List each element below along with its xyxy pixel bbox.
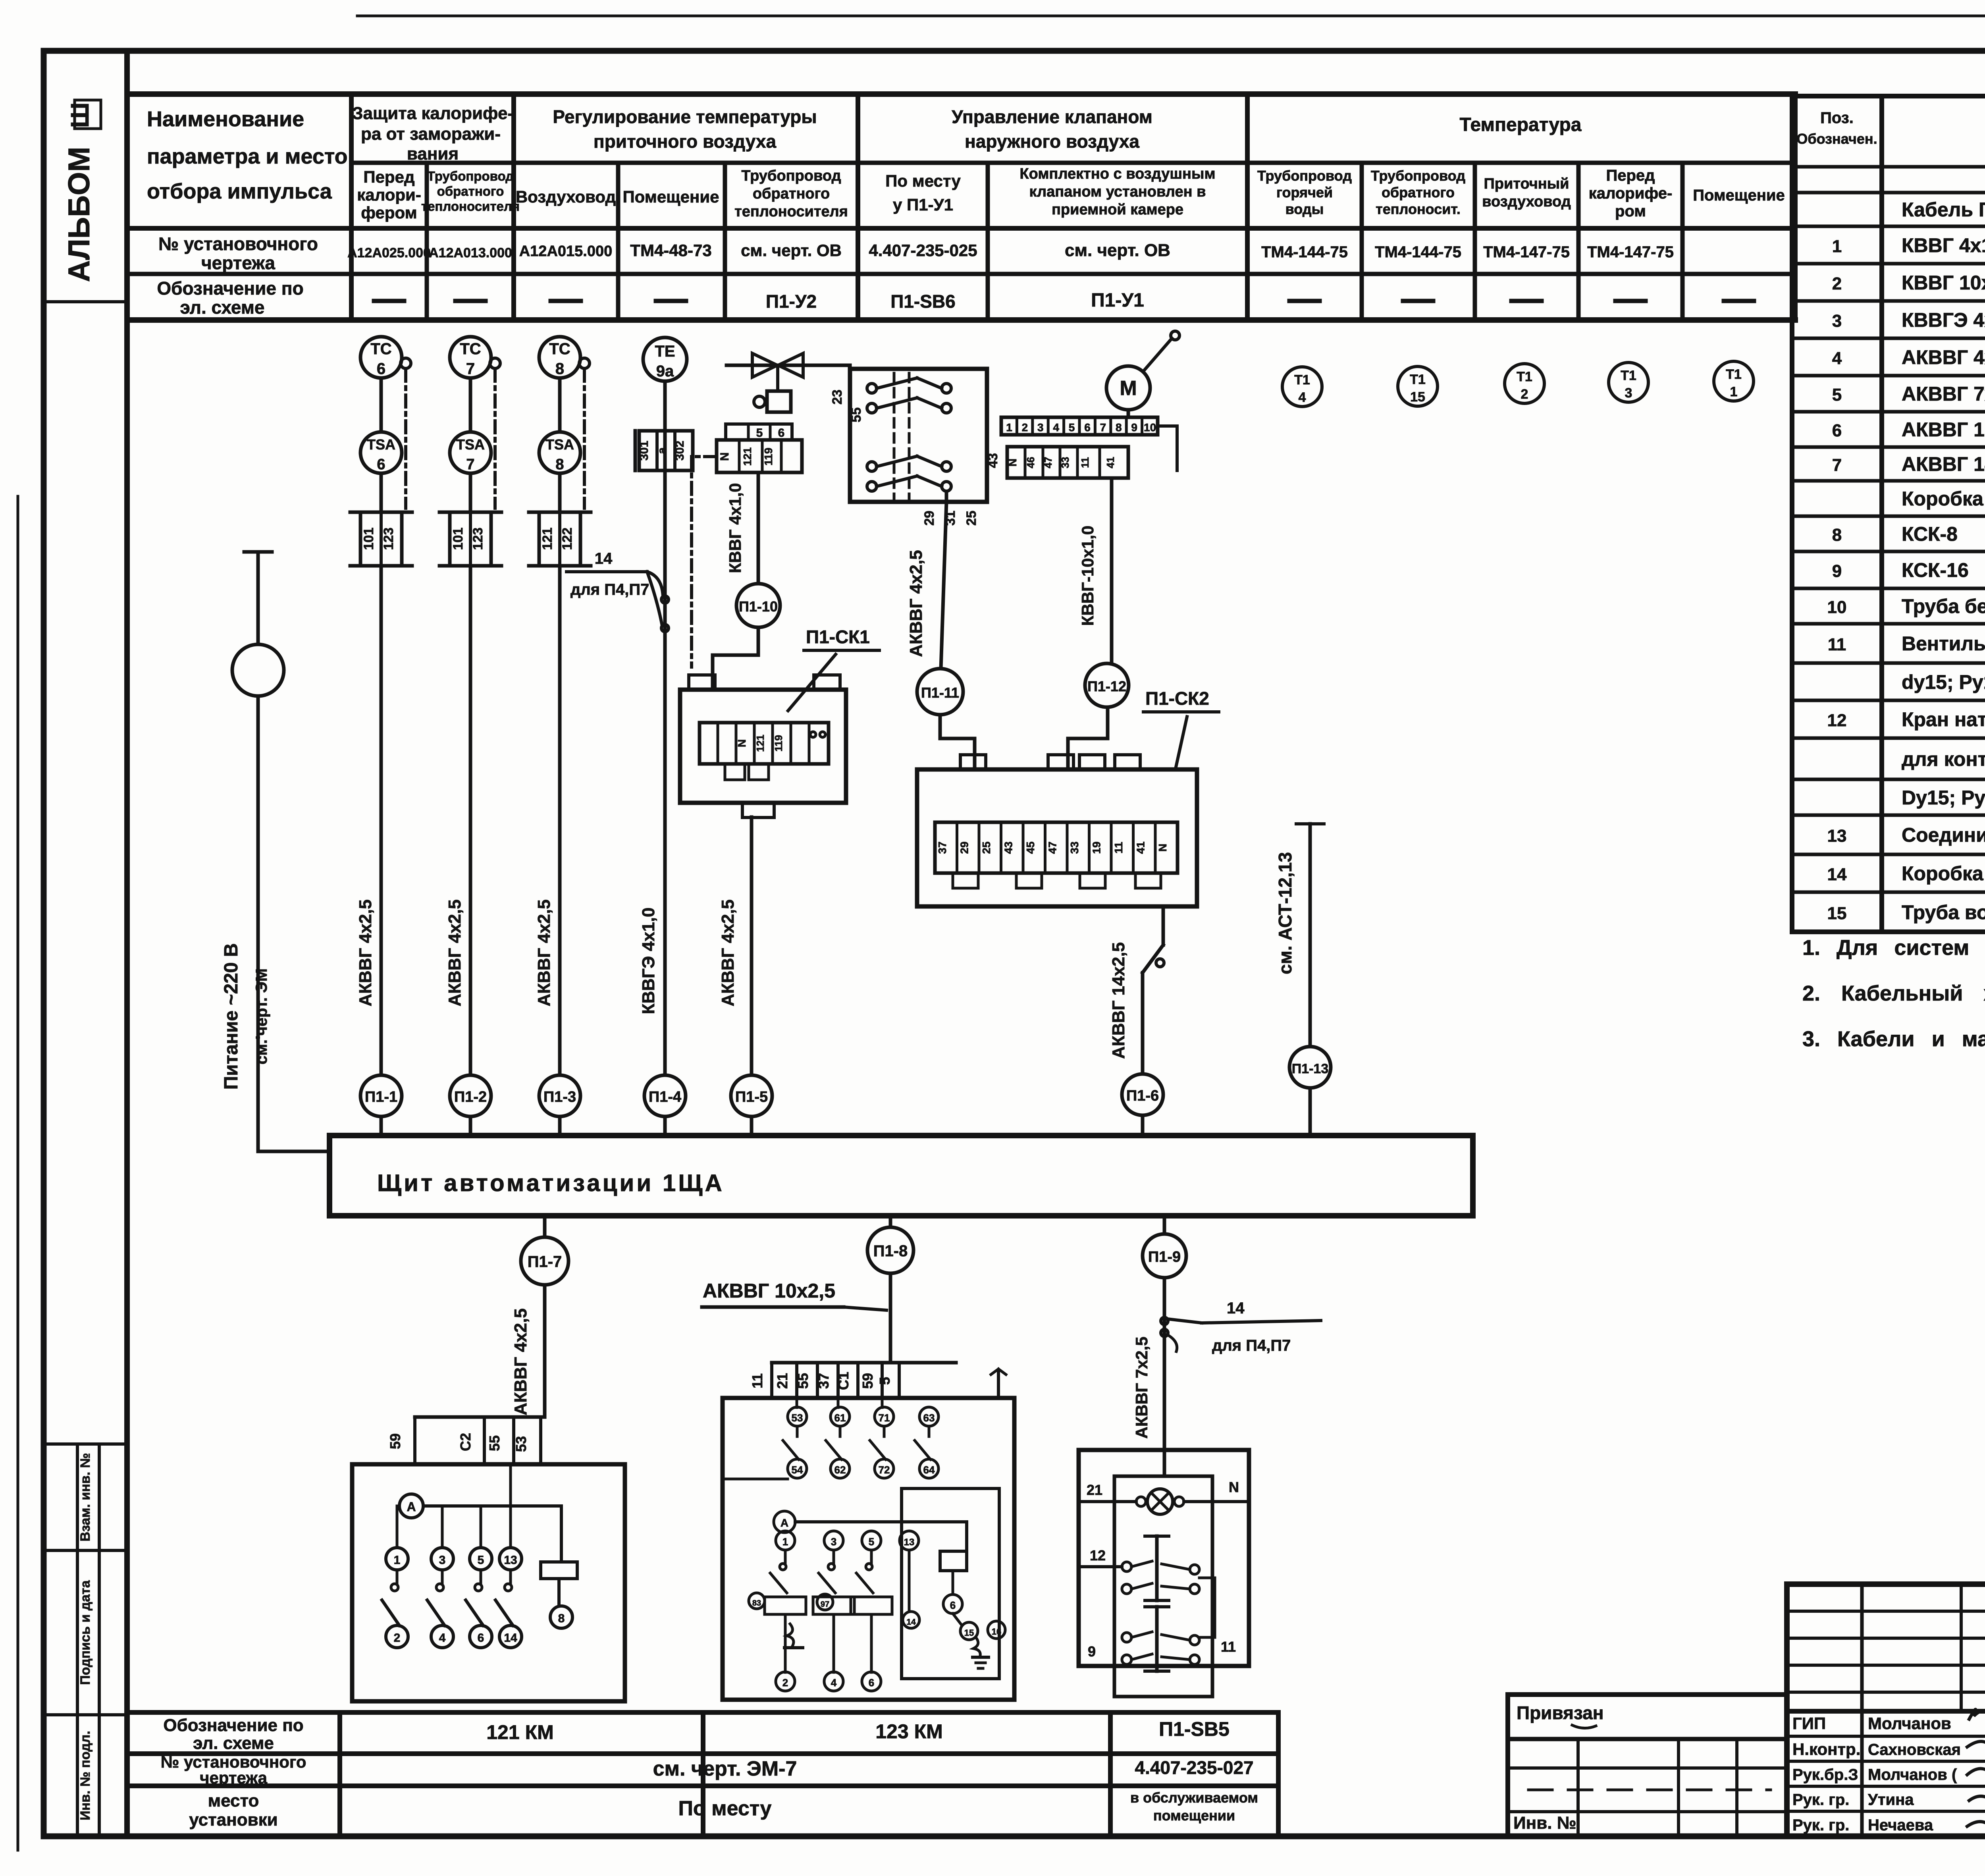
svg-text:С1: С1 [835, 1372, 852, 1390]
svg-text:теплоносит.: теплоносит. [1376, 201, 1461, 217]
svg-text:2: 2 [782, 1677, 788, 1689]
svg-text:П1-SВ5: П1-SВ5 [1159, 1718, 1230, 1740]
svg-text:10: 10 [1144, 421, 1156, 434]
svg-text:теплоносителя: теплоносителя [421, 199, 520, 214]
svg-text:8: 8 [555, 456, 564, 473]
svg-text:АКВВГ 4х2,5: АКВВГ 4х2,5 [511, 1308, 530, 1415]
svg-text:Трубопровод: Трубопровод [1371, 168, 1465, 184]
svg-text:теплоносителя: теплоносителя [734, 203, 848, 220]
svg-text:4: 4 [1053, 421, 1059, 434]
svg-text:ТSА: ТSА [545, 436, 574, 453]
svg-text:55: 55 [849, 407, 864, 422]
svg-text:ра от заморажи-: ра от заморажи- [361, 124, 501, 144]
svg-text:ТSА: ТSА [456, 436, 485, 453]
svg-text:П1-10: П1-10 [739, 598, 778, 615]
svg-text:Взам. инв. №: Взам. инв. № [78, 1453, 93, 1541]
svg-text:Рук. гр.: Рук. гр. [1792, 1816, 1849, 1834]
svg-text:КВВГ-10х1,0: КВВГ-10х1,0 [1078, 526, 1097, 626]
svg-text:11: 11 [1221, 1639, 1236, 1655]
svg-text:15: 15 [1827, 904, 1847, 923]
svg-text:обратного: обратного [437, 184, 504, 199]
svg-text:59: 59 [387, 1433, 403, 1449]
svg-text:П1-4: П1-4 [649, 1089, 681, 1105]
svg-text:83: 83 [752, 1599, 761, 1608]
svg-text:см. черт. ОВ: см. черт. ОВ [1065, 241, 1170, 260]
svg-text:11: 11 [1828, 635, 1846, 654]
svg-text:dу15; Ру16 ГОСТ 5761-74*: dу15; Ру16 ГОСТ 5761-74* [1902, 671, 1985, 693]
svg-text:Молчанов (: Молчанов ( [1868, 1766, 1957, 1783]
svg-text:64: 64 [923, 1464, 935, 1476]
svg-text:воздуховод: воздуховод [1482, 193, 1571, 210]
svg-text:приточного воздуха: приточного воздуха [594, 131, 777, 152]
svg-text:41: 41 [1135, 841, 1147, 854]
svg-text:33: 33 [1059, 457, 1071, 469]
svg-text:10: 10 [1827, 598, 1847, 617]
svg-text:АКВВГ 14х2,5: АКВВГ 14х2,5 [1109, 942, 1128, 1059]
svg-text:Нечаева: Нечаева [1868, 1816, 1933, 1834]
svg-text:ТМ4-48-73: ТМ4-48-73 [630, 241, 711, 260]
svg-text:13: 13 [904, 1537, 915, 1548]
svg-text:1. Для систем П3,П4,П7. Схемы: 1. Для систем П3,П4,П7. Схемы аналогичны… [1802, 936, 1985, 960]
svg-text:горячей: горячей [1276, 184, 1333, 201]
svg-text:N: N [1229, 1479, 1239, 1495]
svg-text:1: 1 [1730, 384, 1738, 399]
svg-text:7: 7 [466, 360, 475, 378]
svg-text:П1-9: П1-9 [1148, 1249, 1181, 1265]
svg-text:12: 12 [1090, 1547, 1106, 1564]
svg-text:П1-11: П1-11 [921, 684, 959, 701]
svg-text:25: 25 [964, 511, 979, 526]
svg-text:29: 29 [958, 841, 971, 854]
svg-text:АКВВГ 7х2,5: АКВВГ 7х2,5 [1132, 1336, 1151, 1438]
svg-text:2: 2 [1022, 421, 1028, 434]
svg-text:N: N [1156, 844, 1169, 852]
svg-text:4.407-235-025: 4.407-235-025 [869, 241, 977, 260]
svg-text:Н.контр.: Н.контр. [1792, 1740, 1860, 1758]
svg-text:Приточный: Приточный [1484, 175, 1569, 192]
svg-text:КСК-8: КСК-8 [1902, 523, 1958, 545]
svg-text:Перед: Перед [1606, 167, 1655, 184]
svg-text:Рук.бр.З: Рук.бр.З [1792, 1766, 1858, 1783]
svg-text:Труба бесшовная 14х2 ГОСТ 8: Труба бесшовная 14х2 ГОСТ 8734-75 [1902, 595, 1985, 617]
svg-text:11: 11 [749, 1373, 765, 1388]
svg-text:клапаном установлен в: клапаном установлен в [1029, 183, 1206, 200]
svg-text:45: 45 [1024, 841, 1037, 854]
svg-text:121: 121 [741, 447, 754, 466]
svg-text:ТSА: ТSА [367, 436, 395, 453]
svg-text:7: 7 [1832, 455, 1842, 475]
svg-text:Защита калорифе-: Защита калорифе- [352, 104, 513, 123]
svg-text:119: 119 [773, 735, 784, 752]
svg-text:П1-SВ6: П1-SВ6 [890, 291, 955, 312]
svg-text:П1-13: П1-13 [1292, 1061, 1329, 1076]
svg-text:Подпись и дата: Подпись и дата [78, 1580, 93, 1685]
svg-text:9: 9 [1088, 1643, 1096, 1660]
svg-text:5: 5 [877, 1377, 893, 1385]
svg-text:Сахновская: Сахновская [1868, 1741, 1961, 1758]
svg-text:43: 43 [985, 453, 1000, 468]
svg-text:см. черт. ОВ: см. черт. ОВ [741, 241, 842, 260]
svg-text:Вентиль запорный муфтовый 1: Вентиль запорный муфтовый 15кч18р [1902, 632, 1985, 655]
svg-text:Помещение: Помещение [1693, 187, 1785, 204]
svg-text:59: 59 [860, 1373, 876, 1389]
svg-text:21: 21 [774, 1373, 790, 1389]
svg-text:123: 123 [470, 528, 486, 550]
svg-text:ТМ4-144-75: ТМ4-144-75 [1375, 243, 1461, 261]
svg-text:для контрольного манометра: для контрольного манометра 14М1-00-00 [1902, 748, 1985, 770]
svg-text:КВВГ 10х1,0: КВВГ 10х1,0 [1902, 272, 1985, 294]
svg-text:А12А015.000: А12А015.000 [519, 243, 613, 260]
svg-text:43: 43 [1002, 841, 1015, 854]
svg-text:119: 119 [762, 447, 775, 465]
svg-text:101: 101 [451, 528, 466, 550]
svg-text:55: 55 [486, 1435, 503, 1451]
svg-text:13: 13 [1827, 826, 1847, 846]
svg-text:3: 3 [831, 1536, 836, 1548]
svg-text:5: 5 [1069, 421, 1075, 434]
svg-text:в обслуживаемом: в обслуживаемом [1130, 1789, 1258, 1806]
svg-text:3. Кабели и материалы учтены д: 3. Кабели и материалы учтены для систем … [1802, 1027, 1985, 1051]
svg-text:3: 3 [439, 1554, 446, 1567]
svg-text:14: 14 [1227, 1300, 1245, 1317]
svg-text:123 КМ: 123 КМ [875, 1720, 942, 1743]
svg-text:АКВВГ 10х2,5: АКВВГ 10х2,5 [703, 1280, 835, 1302]
svg-text:5: 5 [869, 1536, 874, 1548]
svg-text:П1-СК2: П1-СК2 [1145, 688, 1209, 709]
svg-text:ром: ром [1615, 202, 1646, 220]
svg-text:АКВВГ 4х2,5: АКВВГ 4х2,5 [534, 899, 554, 1006]
svg-text:8: 8 [558, 1612, 565, 1625]
svg-text:вания: вания [407, 144, 459, 164]
svg-text:71: 71 [879, 1412, 890, 1424]
svg-text:9: 9 [1832, 561, 1842, 581]
svg-text:14: 14 [906, 1618, 916, 1627]
svg-text:Коробка соединительная ТУ36: Коробка соединительная ТУ36.1753-75 [1902, 488, 1985, 510]
svg-text:Щит автоматизации 1ЩА: Щит автоматизации 1ЩА [377, 1170, 725, 1196]
svg-text:72: 72 [879, 1464, 890, 1476]
svg-text:Утина: Утина [1868, 1791, 1914, 1809]
svg-text:обратного: обратного [1382, 184, 1455, 201]
svg-text:6: 6 [778, 426, 785, 440]
svg-text:302: 302 [673, 441, 686, 461]
svg-text:П1-2: П1-2 [454, 1089, 487, 1105]
svg-text:Т1: Т1 [1621, 368, 1636, 383]
svg-text:ТС: ТС [549, 340, 570, 358]
svg-text:Т1: Т1 [1410, 372, 1426, 387]
svg-text:3: 3 [1625, 386, 1632, 401]
svg-text:4.407-235-027: 4.407-235-027 [1135, 1757, 1253, 1778]
svg-text:По месту: По месту [678, 1797, 772, 1820]
svg-text:6: 6 [377, 360, 385, 378]
svg-text:1: 1 [1832, 237, 1842, 256]
svg-text:122: 122 [560, 528, 575, 550]
svg-text:121 КМ: 121 КМ [486, 1721, 553, 1743]
svg-text:Регулирование температуры: Регулирование температуры [553, 106, 817, 127]
svg-text:Молчанов: Молчанов [1868, 1714, 1951, 1733]
svg-text:47: 47 [1042, 457, 1054, 469]
svg-text:П1-У1: П1-У1 [1091, 290, 1144, 311]
svg-text:4: 4 [439, 1631, 446, 1645]
svg-text:1: 1 [394, 1554, 401, 1567]
svg-text:N: N [736, 739, 748, 747]
svg-text:КВВГЭ 4х1,0: КВВГЭ 4х1,0 [639, 908, 658, 1014]
svg-text:А: А [781, 1517, 788, 1529]
svg-text:121: 121 [754, 735, 766, 752]
svg-text:Труба водогазопроводная 25: Труба водогазопроводная 25 ГОСТ 3262-75* [1902, 901, 1985, 924]
svg-text:чертежа: чертежа [201, 253, 275, 273]
svg-text:6: 6 [478, 1631, 484, 1645]
svg-text:А12А013.000: А12А013.000 [429, 245, 512, 260]
svg-text:ГИП: ГИП [1792, 1714, 1826, 1733]
svg-text:фером: фером [361, 203, 417, 222]
svg-text:у П1-У1: у П1-У1 [893, 195, 953, 214]
svg-text:14: 14 [1827, 865, 1847, 884]
svg-text:29: 29 [922, 511, 937, 526]
svg-text:46: 46 [1025, 457, 1037, 469]
svg-text:33: 33 [1068, 841, 1081, 854]
svg-text:5: 5 [756, 426, 763, 440]
svg-text:эл. схеме: эл. схеме [193, 1733, 274, 1753]
svg-text:А12А025.000: А12А025.000 [347, 245, 431, 260]
svg-text:54: 54 [792, 1464, 803, 1476]
svg-text:Т1: Т1 [1517, 369, 1532, 384]
svg-text:6: 6 [950, 1599, 956, 1611]
svg-text:АКВВГ 10х2,5: АКВВГ 10х2,5 [1902, 418, 1985, 441]
svg-text:калори-: калори- [357, 185, 421, 204]
svg-text:53: 53 [792, 1412, 803, 1424]
svg-text:Привязан: Привязан [1517, 1702, 1604, 1723]
svg-text:АКВВГ 4х2,5: АКВВГ 4х2,5 [718, 899, 738, 1006]
svg-text:6: 6 [869, 1677, 874, 1689]
svg-text:Соединитель НСВ 14х1/2" ТУ36: Соединитель НСВ 14х1/2" ТУ36.1104-75 [1902, 824, 1985, 846]
svg-text:8: 8 [1832, 525, 1842, 545]
svg-text:АКВВГ 4х2,5: АКВВГ 4х2,5 [356, 899, 375, 1006]
svg-text:14: 14 [595, 550, 613, 567]
svg-text:2: 2 [1521, 387, 1528, 402]
svg-text:ТЕ: ТЕ [655, 343, 675, 360]
svg-text:Управление клапаном: Управление клапаном [952, 106, 1152, 127]
svg-text:чертежа: чертежа [200, 1768, 268, 1787]
svg-text:калорифе-: калорифе- [1589, 185, 1673, 202]
svg-text:Воздуховод: Воздуховод [516, 187, 616, 206]
svg-text:воды: воды [1285, 201, 1324, 217]
svg-text:9: 9 [1131, 421, 1137, 434]
svg-text:наружного воздуха: наружного воздуха [965, 131, 1139, 152]
svg-text:N: N [718, 452, 731, 461]
svg-text:КСК-16: КСК-16 [1902, 559, 1969, 581]
svg-text:53: 53 [513, 1436, 529, 1452]
svg-text:Питание ~220 В: Питание ~220 В [221, 943, 242, 1090]
svg-text:ТС: ТС [370, 340, 391, 358]
svg-text:АКВВГ 4х2,5: АКВВГ 4х2,5 [445, 899, 464, 1006]
svg-text:Наименование: Наименование [147, 107, 304, 131]
svg-text:Трубопровод: Трубопровод [741, 168, 841, 184]
svg-text:эл. схеме: эл. схеме [180, 297, 264, 318]
svg-text:15: 15 [1410, 389, 1425, 405]
svg-text:3: 3 [1832, 311, 1842, 331]
svg-text:4: 4 [1299, 390, 1306, 405]
svg-text:установки: установки [189, 1810, 278, 1830]
svg-text:21: 21 [1087, 1482, 1102, 1498]
svg-text:для П4,П7: для П4,П7 [570, 581, 649, 598]
svg-text:19: 19 [1091, 841, 1103, 854]
svg-text:61: 61 [834, 1412, 846, 1424]
svg-text:9а: 9а [656, 362, 674, 380]
svg-text:место: место [208, 1791, 259, 1810]
svg-text:14: 14 [504, 1631, 517, 1645]
svg-text:М: М [1120, 377, 1137, 400]
svg-text:отбора импульса: отбора импульса [147, 179, 332, 203]
svg-text:Трубопровод: Трубопровод [1257, 168, 1352, 184]
svg-text:Кран натяжной муфтовый с ф: Кран натяжной муфтовый с фланцем [1902, 708, 1985, 731]
svg-text:Инв. №: Инв. № [1513, 1813, 1576, 1833]
svg-text:Помещение: Помещение [622, 187, 719, 206]
svg-text:Комплектно с воздушным: Комплектно с воздушным [1019, 166, 1215, 182]
svg-text:АКВВГ 14х2,5: АКВВГ 14х2,5 [1902, 453, 1985, 475]
svg-text:121: 121 [540, 528, 555, 550]
svg-text:101: 101 [361, 528, 376, 550]
svg-text:123: 123 [381, 528, 396, 550]
svg-text:Рук. гр.: Рук. гр. [1792, 1791, 1849, 1809]
svg-text:Поз.: Поз. [1820, 109, 1854, 127]
svg-text:Обозначение по: Обозначение по [163, 1716, 303, 1735]
svg-text:П1-6: П1-6 [1126, 1087, 1159, 1104]
svg-text:Т1: Т1 [1294, 372, 1310, 388]
svg-text:для П4,П7: для П4,П7 [1212, 1337, 1291, 1354]
svg-text:4: 4 [831, 1677, 837, 1689]
svg-text:41: 41 [1104, 457, 1116, 469]
svg-text:62: 62 [834, 1464, 846, 1476]
svg-text:см.'черт. ЭМ: см.'черт. ЭМ [253, 968, 270, 1064]
svg-text:2: 2 [1832, 274, 1842, 293]
svg-text:4: 4 [1832, 349, 1842, 368]
svg-text:63: 63 [923, 1412, 935, 1424]
svg-text:Перед: Перед [363, 168, 414, 186]
svg-text:23: 23 [830, 389, 845, 405]
svg-text:11: 11 [1079, 457, 1091, 468]
svg-text:37: 37 [936, 841, 948, 854]
svg-text:Обозначен.: Обозначен. [1796, 131, 1877, 147]
svg-text:ТМ4-147-75: ТМ4-147-75 [1483, 243, 1570, 261]
svg-text:97: 97 [821, 1600, 829, 1609]
svg-text:47: 47 [1046, 841, 1059, 854]
svg-text:3: 3 [1037, 421, 1044, 434]
svg-text:6: 6 [1084, 421, 1091, 434]
svg-text:ТМ4-147-75: ТМ4-147-75 [1587, 243, 1674, 261]
svg-text:№ установочного: № установочного [158, 233, 318, 254]
svg-text:1: 1 [782, 1536, 788, 1548]
svg-text:6: 6 [1832, 421, 1842, 440]
svg-text:П1-12: П1-12 [1087, 678, 1126, 694]
svg-text:13: 13 [504, 1554, 517, 1567]
svg-text:см. АСТ-12,13: см. АСТ-12,13 [1275, 852, 1295, 974]
svg-text:обратного: обратного [753, 185, 830, 202]
svg-text:25: 25 [980, 841, 992, 854]
svg-text:АКВВГ 4х2,5: АКВВГ 4х2,5 [1902, 346, 1985, 368]
svg-text:Ш: Ш [66, 102, 94, 128]
svg-text:По месту: По месту [885, 172, 961, 190]
svg-text:Кабель ГОСТ 1508-78*Е: Кабель ГОСТ 1508-78*Е [1902, 199, 1985, 221]
svg-text:7: 7 [466, 456, 474, 473]
svg-text:Трубопровод: Трубопровод [427, 169, 514, 183]
svg-text:37: 37 [815, 1373, 832, 1389]
svg-text:6: 6 [377, 456, 385, 473]
svg-text:АКВВГ 4х2,5: АКВВГ 4х2,5 [906, 550, 926, 657]
svg-text:А: А [407, 1500, 416, 1514]
svg-text:параметра и место: параметра и место [147, 145, 348, 168]
svg-text:Температура: Температура [1460, 114, 1582, 135]
svg-text:приемной камере: приемной камере [1052, 201, 1183, 218]
svg-text:5: 5 [1832, 385, 1842, 405]
svg-text:С2: С2 [457, 1433, 474, 1451]
svg-text:ТМ4-144-75: ТМ4-144-75 [1261, 243, 1348, 261]
svg-text:301: 301 [638, 441, 651, 461]
svg-text:12: 12 [1827, 711, 1847, 730]
svg-text:2. Кабельный журнал см. АСТ-14: 2. Кабельный журнал см. АСТ-14. [1802, 981, 1985, 1005]
svg-text:П1-7: П1-7 [528, 1253, 562, 1271]
svg-text:помещении: помещении [1153, 1807, 1235, 1824]
svg-text:КВВГ 4х1,0: КВВГ 4х1,0 [726, 483, 744, 573]
svg-text:1: 1 [1006, 421, 1012, 434]
svg-text:АЛЬБОМ: АЛЬБОМ [62, 147, 96, 282]
svg-text:П1-1: П1-1 [365, 1089, 397, 1105]
svg-text:Обозначение по: Обозначение по [157, 278, 303, 299]
svg-text:П1-5: П1-5 [735, 1089, 768, 1105]
svg-text:55: 55 [795, 1373, 811, 1389]
svg-text:П1-3: П1-3 [543, 1089, 576, 1105]
svg-text:КВВГ 4х1,0: КВВГ 4х1,0 [1902, 234, 1985, 256]
svg-text:Коробка проходная КПЛ-20: Коробка проходная КПЛ-20 ТУ36.1739-82 [1902, 862, 1985, 885]
svg-text:8: 8 [1116, 421, 1122, 434]
svg-text:П1-У2: П1-У2 [766, 291, 817, 312]
svg-text:16: 16 [992, 1627, 1001, 1637]
svg-text:15: 15 [964, 1628, 974, 1638]
svg-text:5: 5 [478, 1554, 484, 1567]
svg-text:АКВВГ 7х2,5: АКВВГ 7х2,5 [1902, 383, 1985, 405]
svg-text:ТС: ТС [460, 340, 481, 358]
svg-text:Т1: Т1 [1726, 367, 1742, 382]
svg-text:КВВГЭ 4х1,0: КВВГЭ 4х1,0 [1902, 309, 1985, 331]
svg-text:8: 8 [555, 360, 564, 378]
svg-text:11: 11 [1112, 842, 1125, 854]
svg-text:N: N [1006, 459, 1019, 467]
svg-text:2: 2 [394, 1631, 401, 1645]
svg-text:П1-СК1: П1-СК1 [806, 627, 870, 647]
svg-text:Dу15; Ру16 ТУ26-07-1061-7: Dу15; Ру16 ТУ26-07-1061-73 [1902, 787, 1985, 809]
svg-text:а: а [655, 447, 669, 454]
svg-text:см. черт. ЭМ-7: см. черт. ЭМ-7 [653, 1757, 797, 1780]
svg-text:Инв. № подл.: Инв. № подл. [78, 1731, 93, 1820]
svg-text:7: 7 [1100, 421, 1106, 434]
svg-text:П1-8: П1-8 [873, 1242, 908, 1260]
